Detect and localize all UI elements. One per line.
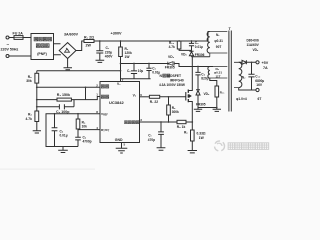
svg-text:10µ: 10µ [138, 69, 144, 73]
svg-text:0.33Ω: 0.33Ω [197, 131, 206, 135]
svg-text:φ0.31: φ0.31 [214, 39, 223, 43]
svg-text:820p: 820p [201, 77, 208, 81]
svg-text:11T: 11T [216, 74, 221, 78]
svg-text:C₂: C₂ [127, 69, 131, 73]
svg-text:300k: 300k [172, 110, 179, 114]
svg-text:(PNF): (PNF) [37, 52, 47, 56]
svg-text:470p: 470p [148, 138, 155, 142]
svg-text:0.01µ: 0.01µ [195, 45, 203, 49]
svg-text:FU 2A: FU 2A [13, 31, 24, 35]
svg-text:R₉: R₉ [184, 131, 188, 135]
svg-text:~: ~ [7, 42, 10, 47]
svg-text:φ1.0×4: φ1.0×4 [236, 97, 247, 101]
svg-text:R₁₁: R₁₁ [220, 91, 225, 95]
svg-text:VD₃: VD₃ [168, 55, 175, 59]
svg-text:6: 6 [140, 93, 142, 97]
svg-text:1W: 1W [199, 136, 205, 140]
svg-text:6T: 6T [258, 97, 262, 101]
svg-text:4.7k: 4.7k [26, 117, 33, 121]
svg-text:7A: 7A [263, 66, 268, 70]
svg-text:30k: 30k [26, 79, 32, 83]
svg-text:UC3842: UC3842 [109, 100, 124, 105]
svg-text:220V 50Hz: 220V 50Hz [1, 48, 19, 52]
svg-text:16V: 16V [256, 83, 263, 87]
svg-text:FR305: FR305 [165, 65, 175, 69]
svg-text:VD₅: VD₅ [181, 52, 187, 56]
svg-text:5: 5 [124, 143, 126, 147]
svg-text:V₁: V₁ [117, 82, 121, 86]
svg-text:11A/60V: 11A/60V [247, 43, 260, 47]
svg-text:R₇ 22: R₇ 22 [150, 100, 158, 104]
svg-text:4700p: 4700p [83, 139, 92, 143]
svg-text:R₈ 1k: R₈ 1k [177, 125, 186, 129]
svg-text:N₁: N₁ [216, 33, 220, 37]
svg-text:3A/600V: 3A/600V [64, 32, 79, 36]
svg-text:R₃ 150k: R₃ 150k [57, 93, 70, 97]
svg-text:N₂: N₂ [242, 76, 246, 80]
svg-text:FR305: FR305 [196, 102, 206, 106]
svg-text:4.7k: 4.7k [169, 45, 175, 49]
svg-text:C₄ 100p: C₄ 100p [56, 110, 70, 114]
svg-text:1W: 1W [125, 55, 131, 59]
svg-text:4.3A 1000V 150W: 4.3A 1000V 150W [159, 83, 185, 87]
svg-text:1: 1 [96, 93, 98, 97]
svg-text:VD₆: VD₆ [253, 48, 259, 52]
svg-text:+300V: +300V [111, 32, 123, 36]
svg-text:+5V: +5V [262, 61, 269, 65]
svg-text:N: N [160, 74, 163, 78]
svg-text:V₀: V₀ [133, 93, 137, 97]
svg-text:10k: 10k [82, 124, 88, 128]
svg-text:0.01µ: 0.01µ [60, 134, 68, 138]
svg-text:FR306: FR306 [195, 53, 205, 57]
svg-text:400V: 400V [105, 55, 114, 59]
svg-text:T: T [229, 27, 232, 31]
svg-text:VREF: VREF [101, 112, 108, 117]
svg-text:VD₄: VD₄ [204, 92, 210, 96]
svg-text:90T: 90T [216, 45, 222, 49]
svg-text:RT/CT: RT/CT [101, 128, 110, 133]
svg-text:GND: GND [115, 138, 123, 142]
svg-text:2W: 2W [86, 44, 92, 48]
svg-text:2: 2 [96, 83, 98, 87]
svg-text:R₁ 2Ω: R₁ 2Ω [84, 35, 94, 39]
